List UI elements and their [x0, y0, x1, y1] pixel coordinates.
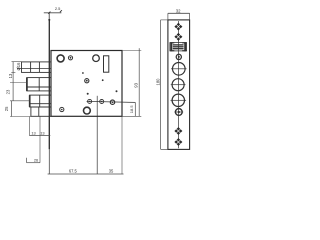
rivet dot 1 [82, 72, 84, 74]
ring a with dot [68, 56, 72, 60]
dimension 25 left line [11, 101, 13, 117]
dimension 13-23 chain line [12, 62, 14, 101]
hole D thick circle [84, 107, 91, 114]
svg-text:180: 180 [155, 78, 160, 86]
ring R1 [176, 54, 181, 59]
svg-text:32: 32 [176, 8, 181, 13]
extension vertical from bolt3 left edge [28, 117, 30, 136]
dimension 18.5 line [134, 102, 136, 116]
ring c with dot [85, 79, 89, 83]
svg-text:13: 13 [31, 130, 35, 135]
dimension 26 line [27, 162, 40, 164]
bolt hole C1 [173, 63, 186, 76]
faceplate top cap tick [48, 19, 50, 21]
dimension 32 line [168, 12, 190, 14]
screw S3 [174, 127, 182, 135]
svg-text:25: 25 [4, 106, 9, 111]
extension line bolt3 [10, 100, 30, 102]
rivet dot 3 [87, 93, 89, 95]
svg-text:18.5: 18.5 [129, 105, 134, 114]
dimension 13 13 line [29, 135, 50, 137]
screw S2 [174, 33, 182, 41]
body right edge extension to bottom dimension [121, 116, 123, 174]
svg-text:35: 35 [109, 169, 114, 174]
svg-text:Ø16: Ø16 [16, 62, 21, 71]
screw S1 [174, 23, 182, 31]
dimension 2.5 left tick [48, 12, 50, 14]
svg-text:13: 13 [40, 130, 44, 135]
extension line bolt2 [10, 82, 27, 84]
spindle ring s3 [110, 100, 114, 104]
extension line bolt1 top [12, 61, 22, 63]
rivet dot 4 [116, 90, 118, 92]
lock body outline [51, 51, 122, 117]
dimension 26 left tick [26, 158, 28, 163]
faceplate line extension to top dimension [48, 13, 50, 20]
bolt B2 [27, 78, 51, 91]
hole B circle [93, 55, 100, 62]
dimension 32 end ticks [167, 13, 169, 20]
label 180 [154, 77, 160, 88]
extension line body bottom left [10, 116, 31, 118]
bolt B4 latch [31, 107, 51, 116]
extension vertical from bolt inner line down to 26 dim [39, 117, 41, 163]
spindle cross vertical line going to bottom dimension [96, 96, 98, 174]
faceplate bottom edge extension to 180 dim [161, 148, 168, 150]
slot rectangle [104, 56, 109, 72]
svg-text:23: 23 [6, 89, 11, 94]
ring R2 [175, 109, 182, 116]
label 93 [133, 82, 138, 87]
bottom dimension line [48, 173, 124, 175]
extension body bottom right [122, 115, 141, 117]
faceplate centerline [178, 21, 180, 148]
svg-text:2.5: 2.5 [55, 6, 61, 11]
spindle ring s2 [100, 100, 104, 104]
spindle axis horizontal line [87, 101, 136, 102]
faceplate edge line (side view) [48, 20, 50, 150]
bolt hole C2 [172, 79, 184, 91]
extension body top right [122, 50, 141, 52]
bolt B3 [30, 95, 51, 107]
faceplate extension to bottom dimension [48, 149, 50, 174]
svg-text:13: 13 [8, 73, 13, 78]
spindle ring s1 [88, 99, 92, 103]
bolt hole C3 [172, 94, 184, 106]
svg-text:93: 93 [133, 82, 138, 87]
dimension 93 line [138, 48, 140, 116]
extension tick bolt1 bottom [11, 71, 15, 73]
faceplate front view outline [168, 20, 190, 150]
screw S4 [174, 138, 182, 146]
dimension 2.5 right end tick [60, 10, 62, 12]
svg-text:26: 26 [34, 158, 38, 163]
ring d with dot [60, 107, 64, 111]
latch opening box [170, 42, 187, 51]
dimension 2.5 top line [44, 12, 62, 14]
hole A thick circle [57, 55, 64, 62]
dimension 180 line [160, 20, 162, 150]
faceplate top edge extension to 180 dim [161, 19, 168, 21]
rivet dot 2 [102, 79, 104, 81]
svg-text:67.5: 67.5 [69, 168, 78, 173]
bolt B1 [17, 62, 51, 73]
